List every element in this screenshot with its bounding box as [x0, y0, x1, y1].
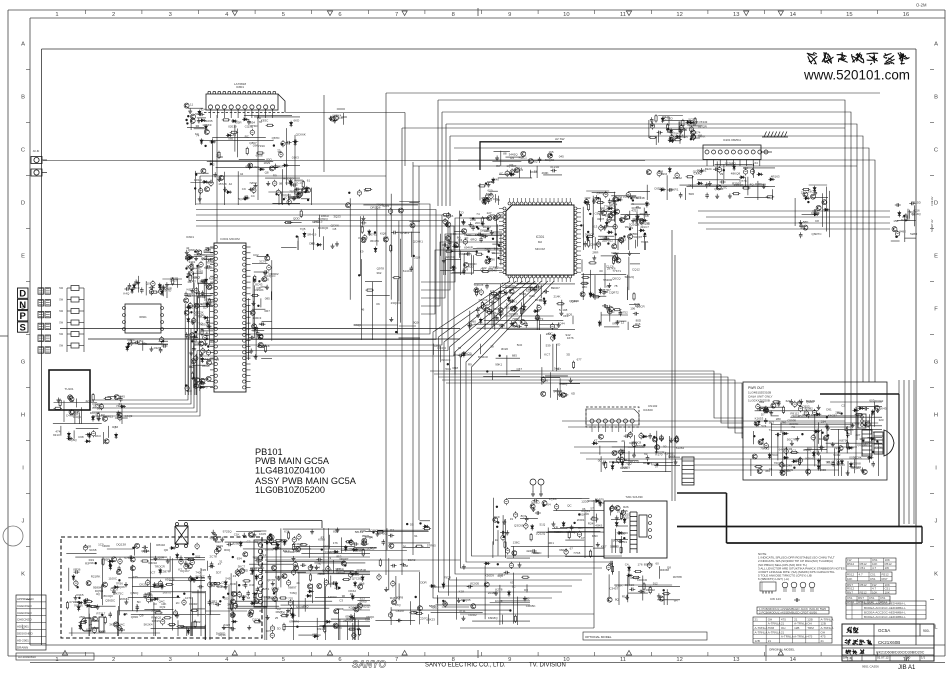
svg-text:14: 14 [790, 12, 797, 18]
svg-text:71R: 71R [289, 189, 295, 193]
svg-text:165: 165 [549, 150, 554, 154]
svg-text:5D65: 5D65 [195, 112, 203, 116]
svg-text:R7: R7 [510, 163, 514, 167]
svg-text:3: 3 [169, 657, 172, 663]
svg-text:2: 2 [112, 657, 115, 663]
svg-text:88: 88 [503, 152, 507, 156]
svg-text:620: 620 [488, 189, 493, 193]
svg-text:8: 8 [452, 12, 455, 18]
svg-text:01K3: 01K3 [292, 155, 299, 159]
svg-text:RCD3D: RCD3D [283, 176, 294, 180]
svg-text:98: 98 [299, 191, 303, 195]
svg-text:402: 402 [533, 160, 538, 164]
svg-text:72KR: 72KR [249, 181, 257, 185]
svg-text:13: 13 [733, 12, 739, 18]
svg-text:F: F [934, 306, 938, 312]
svg-text:LA76818: LA76818 [234, 82, 246, 86]
svg-text:42: 42 [229, 182, 233, 186]
svg-text:2C1D7: 2C1D7 [296, 181, 306, 185]
svg-text:J: J [22, 518, 25, 524]
svg-text:IR601: IR601 [139, 315, 147, 319]
svg-text:B: B [21, 94, 25, 100]
svg-text:11: 11 [620, 657, 626, 663]
svg-text:61: 61 [246, 165, 250, 169]
svg-text:1LG4B10Z04100: 1LG4B10Z04100 [255, 465, 325, 475]
svg-text:G: G [21, 359, 26, 365]
svg-text:TV. DIVISION: TV. DIVISION [529, 663, 566, 669]
svg-text:1240: 1240 [492, 178, 499, 182]
svg-text:IC1600: IC1600 [643, 408, 653, 412]
svg-text:10: 10 [563, 12, 569, 18]
svg-text:1R1D: 1R1D [194, 178, 203, 182]
svg-text:AV-IN: AV-IN [33, 149, 40, 153]
svg-text:E: E [21, 253, 25, 259]
svg-text:045: 045 [559, 154, 564, 158]
svg-text:K83C: K83C [261, 118, 269, 122]
svg-text:83Q: 83Q [266, 158, 272, 162]
svg-text:26Q: 26Q [253, 165, 259, 169]
svg-text:15: 15 [846, 12, 852, 18]
svg-text:085: 085 [228, 137, 233, 141]
svg-text:DCD1: DCD1 [484, 198, 492, 202]
svg-text:974D: 974D [250, 124, 258, 128]
svg-text:K84: K84 [275, 164, 281, 168]
svg-text:5: 5 [282, 657, 285, 663]
svg-text:1D6K9: 1D6K9 [202, 123, 212, 127]
svg-text:D: D [19, 289, 26, 300]
svg-text:O-2M: O-2M [916, 3, 927, 8]
svg-text:IC301: IC301 [536, 235, 545, 239]
svg-text:H: H [21, 412, 25, 418]
svg-text:R8: R8 [496, 164, 500, 168]
svg-text:9: 9 [508, 12, 511, 18]
svg-text:93: 93 [534, 170, 538, 174]
svg-text:900-: 900- [923, 629, 930, 633]
svg-text:CC8: CC8 [337, 116, 343, 120]
svg-text:1: 1 [55, 12, 58, 18]
svg-text:9: 9 [508, 657, 511, 663]
svg-text:73: 73 [277, 149, 281, 153]
svg-text:08: 08 [279, 181, 283, 185]
svg-text:A: A [21, 41, 25, 47]
svg-text:12: 12 [676, 12, 682, 18]
svg-text:R9: R9 [273, 173, 277, 177]
svg-text:G: G [934, 359, 939, 365]
svg-text:14: 14 [790, 657, 797, 663]
svg-text:61: 61 [307, 179, 311, 183]
svg-text:02019: 02019 [228, 125, 237, 129]
svg-text:6: 6 [338, 657, 341, 663]
svg-text:943: 943 [206, 180, 211, 184]
svg-text:SCART AV: SCART AV [930, 219, 934, 232]
svg-text:8516: 8516 [304, 187, 311, 191]
svg-text:H: H [934, 412, 938, 418]
svg-text:B: B [934, 94, 938, 100]
svg-text:Q3: Q3 [286, 181, 290, 185]
svg-text:IC201 KB2511: IC201 KB2511 [723, 138, 741, 142]
svg-text:CUE AV: CUE AV [930, 196, 934, 206]
svg-text:4R4: 4R4 [517, 166, 523, 170]
svg-text:www.520101.com: www.520101.com [803, 68, 910, 83]
svg-text:K3: K3 [195, 132, 199, 136]
svg-text:K: K [21, 571, 25, 577]
svg-text:1Q: 1Q [244, 194, 249, 198]
svg-text:JIB A1: JIB A1 [898, 665, 916, 671]
svg-text:D: D [21, 200, 25, 206]
svg-text:12: 12 [676, 657, 682, 663]
svg-text:C6: C6 [496, 198, 500, 202]
svg-text:D: D [934, 200, 938, 206]
svg-text:7: 7 [395, 12, 398, 18]
svg-text:44: 44 [240, 172, 244, 176]
svg-text:KK: KK [249, 187, 253, 191]
svg-text:719C: 719C [258, 144, 266, 148]
svg-text:C4: C4 [251, 194, 255, 198]
svg-text:KQC1: KQC1 [519, 156, 528, 160]
svg-text:5: 5 [282, 12, 285, 18]
svg-text:A: A [934, 41, 938, 47]
svg-text:E: E [934, 253, 938, 259]
svg-text:P: P [20, 311, 27, 322]
svg-text:C: C [934, 147, 938, 153]
svg-text:C: C [21, 147, 25, 153]
svg-text:6: 6 [338, 12, 341, 18]
svg-text:S: S [20, 323, 26, 334]
svg-text:1LG0B10Z05200: 1LG0B10Z05200 [255, 485, 325, 495]
svg-text:C9: C9 [242, 187, 246, 191]
svg-text:0121R: 0121R [550, 165, 560, 169]
svg-text:IC601 MICOM: IC601 MICOM [220, 237, 240, 241]
svg-text:03K: 03K [253, 144, 258, 148]
svg-text:13: 13 [733, 657, 739, 663]
svg-text:SANYO ELECTRIC CO., LTD.: SANYO ELECTRIC CO., LTD. [425, 663, 506, 669]
svg-text:N: N [19, 300, 26, 311]
svg-text:CK21D60B/D30C/D30B/D20C: CK21D60B/D30C/D30B/D20C [876, 650, 925, 654]
svg-text:CN102: CN102 [648, 404, 658, 408]
svg-text:SANYO: SANYO [352, 660, 386, 671]
svg-text:QCK6K: QCK6K [296, 132, 306, 136]
svg-text:MICOM: MICOM [535, 247, 545, 251]
svg-text:Q8: Q8 [265, 171, 269, 175]
svg-text:16: 16 [903, 12, 909, 18]
svg-text:M2: M2 [538, 240, 542, 244]
svg-text:6KD: 6KD [294, 118, 301, 122]
svg-text:GC5A: GC5A [878, 628, 890, 633]
svg-text:11: 11 [190, 103, 193, 107]
svg-text:PWR OUT: PWR OUT [748, 386, 764, 390]
svg-text:6K06: 6K06 [256, 153, 263, 157]
svg-text:6DQ60: 6DQ60 [545, 158, 555, 162]
svg-text:R5: R5 [489, 180, 493, 184]
svg-text:T201 SOUND: T201 SOUND [625, 495, 642, 499]
svg-text:7: 7 [395, 657, 398, 663]
svg-text:3: 3 [169, 12, 172, 18]
svg-text:11: 11 [620, 12, 626, 18]
svg-text:R4: R4 [510, 156, 514, 160]
svg-text:CK21X60B: CK21X60B [878, 640, 900, 645]
svg-text:405R: 405R [234, 120, 242, 124]
svg-text:7K86: 7K86 [488, 258, 495, 262]
svg-text:Q87D: Q87D [272, 136, 281, 140]
svg-text:1572K: 1572K [218, 182, 227, 186]
svg-text:TU101: TU101 [64, 387, 73, 391]
svg-text:J: J [935, 518, 938, 524]
svg-text:499K: 499K [542, 171, 549, 175]
svg-text:2: 2 [112, 12, 115, 18]
svg-text:542: 542 [210, 163, 215, 167]
svg-text:K: K [934, 571, 938, 577]
